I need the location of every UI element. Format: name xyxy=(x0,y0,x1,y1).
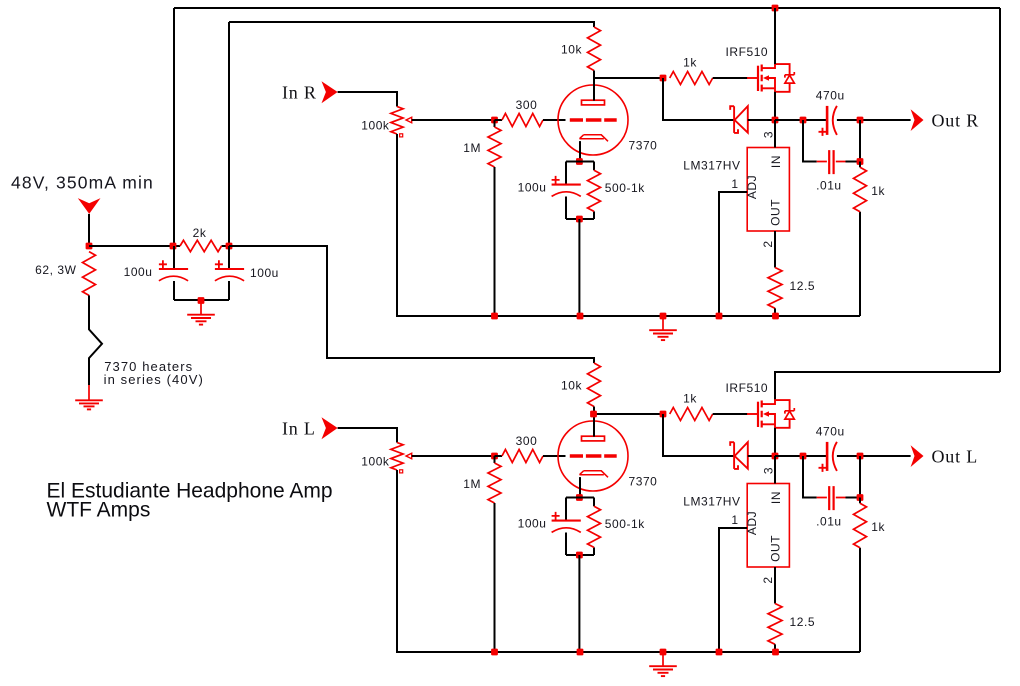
node cathode junction L xyxy=(576,494,583,501)
pin number 3 U1L xyxy=(762,467,776,474)
node zobel junction L xyxy=(857,494,864,501)
wire source to output node L xyxy=(774,428,776,456)
svg-text:1M: 1M xyxy=(463,477,481,491)
pin label ADJ U1L xyxy=(745,511,759,535)
resistor R9 2k filter xyxy=(180,240,222,251)
svg-text:100u: 100u xyxy=(518,181,547,195)
resistor R3L 1M xyxy=(488,463,501,503)
wire LM317 ADJ pin L xyxy=(719,528,747,652)
wire 1M bottom to rail L xyxy=(494,503,496,652)
resistor R8L 12.5 current set xyxy=(768,604,782,645)
wire B+ feed to Q1L drain xyxy=(775,372,1000,400)
wire zobel 1k stubs L xyxy=(859,498,861,653)
wire plate node row R xyxy=(594,77,663,79)
node 48V junction xyxy=(86,243,93,250)
tube V1R grid dashes xyxy=(570,118,617,122)
label 100k for R2R xyxy=(361,119,390,133)
svg-text:100k: 100k xyxy=(361,119,390,133)
label 300 for R4R xyxy=(516,98,538,112)
wire grid node to 1M R xyxy=(494,120,496,127)
wire 12.5 to rail L xyxy=(774,644,776,652)
wire 470u to out arrow L xyxy=(837,455,911,457)
wire cathode resistor branch L xyxy=(593,498,595,556)
svg-text:100u: 100u xyxy=(124,265,153,279)
tube V1L grid dashes xyxy=(570,454,617,458)
label 500-1k for R5R xyxy=(605,181,645,195)
svg-text:470u: 470u xyxy=(816,424,845,438)
svg-text:470u: 470u xyxy=(816,88,845,102)
wire .01u to 1k node L xyxy=(846,456,861,498)
wire ground rail L xyxy=(396,651,860,653)
label 1k for R7R xyxy=(871,184,885,198)
resistor R5R 500-1k cathode xyxy=(588,170,601,211)
wire In R to pot R2R top xyxy=(338,92,397,107)
wire pot R2R bottom to ground rail xyxy=(396,134,398,316)
node cathode junction R xyxy=(576,158,583,165)
wire inner rail to 10k R xyxy=(229,22,594,27)
svg-text:OUT: OUT xyxy=(769,535,783,562)
wire LM317 OUT pin R xyxy=(774,231,776,268)
svg-text:3: 3 xyxy=(762,467,776,474)
wire ground rail R xyxy=(396,315,860,317)
resistor R3R 1M xyxy=(488,127,501,167)
svg-text:ADJ: ADJ xyxy=(745,175,759,199)
wire zener branch down R xyxy=(663,78,734,120)
svg-text:IN: IN xyxy=(769,155,783,168)
wire grid node to 300 L xyxy=(495,455,503,457)
svg-text:IRF510: IRF510 xyxy=(726,381,769,395)
wire output node right R xyxy=(775,119,827,121)
svg-text:LM317HV: LM317HV xyxy=(683,159,740,173)
wire pot R2R wiper to grid node xyxy=(412,119,495,121)
potentiometer R2L wiper arrow xyxy=(400,453,412,473)
wire zener to source node L xyxy=(748,455,775,457)
node 1k gate left junction R xyxy=(660,75,667,82)
wire In L to pot R2L top xyxy=(338,428,397,443)
svg-text:1k: 1k xyxy=(683,392,697,406)
wire zobel branch L xyxy=(803,456,817,498)
wire 48V input to node xyxy=(88,214,90,246)
svg-text:OUT: OUT xyxy=(769,199,783,226)
pin label ADJ U1R xyxy=(745,175,759,199)
wire cathode lead L xyxy=(579,477,581,497)
ground rail L xyxy=(649,652,677,676)
wire plate lead L xyxy=(593,414,595,437)
label IRF510 for Q1R xyxy=(726,45,769,59)
wire LM317 OUT pin L xyxy=(774,567,776,604)
label .01u for C3L xyxy=(816,515,842,529)
wire 12.5 to rail R xyxy=(774,308,776,316)
svg-text:500-1k: 500-1k xyxy=(605,181,645,195)
wire 300 to tube grid L xyxy=(543,455,566,457)
node ADJ rail junction L xyxy=(716,649,723,656)
svg-text:12.5: 12.5 xyxy=(790,279,816,293)
node In R input port label xyxy=(282,83,317,103)
node Out R port label xyxy=(932,110,980,130)
capacitor C5 100u filter right xyxy=(215,268,244,270)
node filter left junction xyxy=(170,243,177,250)
node zobel junction R xyxy=(857,158,864,165)
resistor R6L 1k gate stopper xyxy=(670,408,713,421)
wire cathode bracket bottom R xyxy=(566,218,594,220)
wire cathode to rail L xyxy=(578,555,580,652)
svg-text:ADJ: ADJ xyxy=(745,511,759,535)
wire .01u to 1k node R xyxy=(846,120,861,162)
svg-text:2k: 2k xyxy=(193,226,207,240)
potentiometer R2R 100k body xyxy=(391,107,403,135)
node 1k gate left junction L xyxy=(660,411,667,418)
ground filter caps xyxy=(200,301,202,315)
tube V1L 7370 envelope xyxy=(558,421,628,491)
svg-text:100u: 100u xyxy=(518,517,547,531)
wire cathode bracket top L xyxy=(566,497,594,499)
node 12.5 rail junction L xyxy=(772,649,779,656)
node 12.5 rail junction R xyxy=(772,313,779,320)
ground rail R xyxy=(649,316,677,340)
svg-text:10k: 10k xyxy=(561,43,582,57)
svg-text:500-1k: 500-1k xyxy=(605,517,645,531)
svg-text:1k: 1k xyxy=(683,56,697,70)
wire heater jog xyxy=(89,295,102,385)
wire cathode bracket bottom L xyxy=(566,554,594,556)
node In L input arrow xyxy=(322,417,338,439)
label 10k for R1L xyxy=(561,379,582,393)
wire plate lead R xyxy=(593,78,595,101)
wire LM317 IN pin L xyxy=(774,456,776,484)
wire pot R2L bottom to ground rail xyxy=(396,470,398,652)
wire 1k to gate L xyxy=(713,413,748,415)
label 100u for C1L xyxy=(518,517,547,531)
resistor R5L 500-1k cathode xyxy=(588,506,601,547)
pin label IN U1L xyxy=(769,491,783,504)
node output cap right junction L xyxy=(857,453,864,460)
wire filter cap left branch xyxy=(173,246,175,300)
resistor R10 62 3W heater dropper xyxy=(83,252,96,296)
node rail ground junction L xyxy=(660,649,667,656)
capacitor C1L 100u cathode bypass xyxy=(552,512,581,533)
label 300 for R4L xyxy=(516,434,538,448)
svg-text:7370: 7370 xyxy=(629,139,658,153)
svg-text:3: 3 xyxy=(762,131,776,138)
wire cathode bracket top R xyxy=(566,161,594,163)
label IRF510 for Q1L xyxy=(726,381,769,395)
resistor R8R 12.5 current set xyxy=(768,268,782,309)
label 12.5 for R8L xyxy=(790,615,816,629)
svg-text:.01u: .01u xyxy=(816,515,842,529)
node cathode rail junction L xyxy=(577,649,584,656)
label 100u for C1R xyxy=(518,181,547,195)
node Out R arrow xyxy=(911,109,924,131)
wire B+ rail to Q1R drain xyxy=(774,8,776,64)
label 10k for R1R xyxy=(561,43,582,57)
svg-text:7370: 7370 xyxy=(629,475,658,489)
label 1M for R3L xyxy=(463,477,481,491)
svg-text:WTF Amps: WTF Amps xyxy=(47,498,151,521)
svg-text:LM317HV: LM317HV xyxy=(683,495,740,509)
wire cathode lead R xyxy=(579,141,581,161)
svg-text:100u: 100u xyxy=(250,266,279,280)
resistor R4L 300 grid stopper xyxy=(502,450,543,463)
wire zobel 1k stubs R xyxy=(859,162,861,317)
wire zener to source node R xyxy=(748,119,775,121)
svg-text:IRF510: IRF510 xyxy=(726,45,769,59)
node rail ground junction R xyxy=(660,313,667,320)
svg-text:12.5: 12.5 xyxy=(790,615,816,629)
node plate junction L xyxy=(590,411,597,418)
node B+ drain tap R xyxy=(772,5,779,12)
wire cathode to rail R xyxy=(578,219,580,316)
wire B+ top rail xyxy=(174,7,1000,9)
svg-text:in series (40V): in series (40V) xyxy=(104,372,204,387)
node 470u left junction R xyxy=(800,117,807,124)
zener D1R gate protection xyxy=(730,106,748,133)
pin number 2 U1L xyxy=(761,576,775,583)
resistor R4R 300 grid stopper xyxy=(502,114,543,127)
node grid junction R xyxy=(491,117,498,124)
resistor R6R 1k gate stopper xyxy=(670,72,713,85)
node grid junction L xyxy=(491,453,498,460)
label 1k for R6L xyxy=(683,392,697,406)
wire LM317 ADJ pin R xyxy=(719,192,747,316)
resistor R7L 1k zobel xyxy=(854,503,867,548)
wire source to output node R xyxy=(774,92,776,120)
node 1M bottom rail junction L xyxy=(491,649,498,656)
node cathode bottom junction R xyxy=(576,216,583,223)
svg-text:1M: 1M xyxy=(463,141,481,155)
node 470u left junction L xyxy=(800,453,807,460)
wire zobel branch R xyxy=(803,120,817,162)
svg-text:IN: IN xyxy=(769,491,783,504)
node filter ground junction xyxy=(198,297,205,304)
pin number 1 U1L xyxy=(731,513,738,527)
wire LM317 IN pin R xyxy=(774,120,776,148)
wire inner vertical to filter xyxy=(228,22,230,246)
capacitor C1R 100u cathode bypass xyxy=(552,176,581,197)
svg-text:1: 1 xyxy=(731,513,738,527)
label 12.5 for R8R xyxy=(790,279,816,293)
wire 300 to tube grid R xyxy=(543,119,566,121)
resistor R7R 1k zobel xyxy=(854,167,867,212)
label 100k for R2L xyxy=(361,455,390,469)
node In R input arrow xyxy=(322,81,338,103)
svg-text:1k: 1k xyxy=(871,184,885,198)
wire B+ right vertical xyxy=(999,8,1001,372)
node source output junction R xyxy=(772,117,779,124)
node Out L arrow xyxy=(911,445,924,467)
svg-text:48V, 350mA min: 48V, 350mA min xyxy=(11,173,154,193)
svg-text:2: 2 xyxy=(761,576,775,583)
wire cathode cap branch R xyxy=(565,162,567,220)
wire output node right L xyxy=(775,455,827,457)
node cathode bottom junction L xyxy=(576,552,583,559)
potentiometer R2R wiper arrow xyxy=(400,117,412,137)
node ADJ rail junction R xyxy=(716,313,723,320)
regulator U1L LM317HV body xyxy=(747,484,789,568)
svg-text:300: 300 xyxy=(516,98,538,112)
wire cathode cap branch L xyxy=(565,498,567,556)
label 1k for R6R xyxy=(683,56,697,70)
tube V1L plate xyxy=(582,436,605,441)
wire 470u to out arrow R xyxy=(837,119,911,121)
node Out L port label xyxy=(932,446,979,466)
pin number 3 U1R xyxy=(762,131,776,138)
wire filter cap right branch xyxy=(228,246,230,300)
label 500-1k for R5L xyxy=(605,517,645,531)
svg-text:300: 300 xyxy=(516,434,538,448)
wire 1M bottom to rail R xyxy=(494,167,496,316)
node filter right junction xyxy=(226,243,233,250)
svg-text:100k: 100k xyxy=(361,455,390,469)
tube V1R cathode xyxy=(580,135,609,142)
node cathode rail junction R xyxy=(577,313,584,320)
wire B+ left vertical to filter xyxy=(173,8,175,246)
svg-text:Out R: Out R xyxy=(932,110,980,130)
wire grid node to 1M L xyxy=(494,456,496,463)
wire 10k bottom stub R xyxy=(593,71,595,79)
label 7370 for V1R xyxy=(629,139,658,153)
label 7370 for V1L xyxy=(629,475,658,489)
wire cathode resistor branch R xyxy=(593,162,595,220)
capacitor C3L .01u zobel xyxy=(817,486,846,510)
wire 1k to gate R xyxy=(713,77,748,79)
resistor R1L 10k plate load xyxy=(588,363,601,407)
svg-text:In L: In L xyxy=(282,419,316,439)
wire 10k bottom stub L xyxy=(593,407,595,415)
wire filter caps bottom bracket xyxy=(174,299,229,301)
wire filter to In L feed xyxy=(229,246,594,363)
wire plate node row L xyxy=(594,413,663,415)
capacitor C2R 470u output xyxy=(819,106,837,136)
label 1k for R7L xyxy=(871,520,885,534)
tube V1L cathode xyxy=(580,471,609,478)
svg-text:1k: 1k xyxy=(871,520,885,534)
label LM317HV for U1R xyxy=(683,159,740,173)
pin number 1 U1R xyxy=(731,177,738,191)
svg-text:Out L: Out L xyxy=(932,446,979,466)
capacitor C3R .01u zobel xyxy=(817,150,846,174)
pin label IN U1R xyxy=(769,155,783,168)
label .01u for C3R xyxy=(816,179,842,193)
node In L input port label xyxy=(282,419,316,439)
node 48V input arrow xyxy=(78,198,101,214)
pin label OUT U1R xyxy=(769,199,783,226)
regulator U1R LM317HV body xyxy=(747,148,789,232)
tube V1R plate xyxy=(582,100,605,105)
svg-text:In R: In R xyxy=(282,83,317,103)
wire grid node to 300 R xyxy=(495,119,503,121)
capacitor C2L 470u output xyxy=(819,442,837,472)
svg-text:.01u: .01u xyxy=(816,179,842,193)
potentiometer R2L 100k body xyxy=(391,443,403,471)
label 470u for C2L xyxy=(816,424,845,438)
tube V1R 7370 envelope xyxy=(558,85,628,155)
node output cap right junction R xyxy=(857,117,864,124)
transistor Q1L IRF510 mosfet xyxy=(747,400,794,428)
svg-text:10k: 10k xyxy=(561,379,582,393)
node 1M bottom rail junction R xyxy=(491,313,498,320)
svg-text:2: 2 xyxy=(761,240,775,247)
node source output junction L xyxy=(772,453,779,460)
label 1M for R3R xyxy=(463,141,481,155)
svg-text:62, 3W: 62, 3W xyxy=(35,263,76,277)
wire zener branch down L xyxy=(663,414,734,456)
svg-text:1: 1 xyxy=(731,177,738,191)
pin number 2 U1R xyxy=(761,240,775,247)
zener D1L gate protection xyxy=(730,442,748,469)
resistor R1R 10k plate load xyxy=(588,27,601,71)
wire 48V node to filter xyxy=(89,245,229,247)
pin label OUT U1L xyxy=(769,535,783,562)
ground heater return xyxy=(88,385,90,400)
capacitor C4 100u filter left xyxy=(159,268,188,270)
label 470u for C2R xyxy=(816,88,845,102)
label LM317HV for U1L xyxy=(683,495,740,509)
transistor Q1R IRF510 mosfet xyxy=(747,64,794,92)
wire pot R2L wiper to grid node xyxy=(412,455,495,457)
